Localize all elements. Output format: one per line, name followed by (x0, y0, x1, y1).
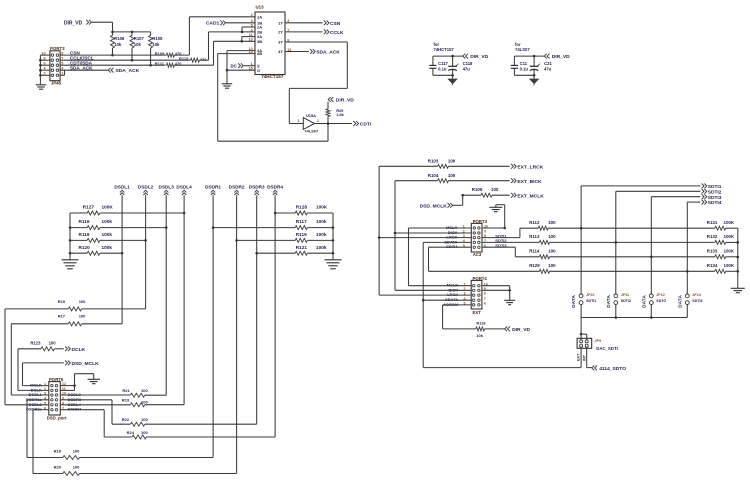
svg-text:2Y: 2Y (278, 30, 283, 35)
svg-text:EXT: EXT (577, 353, 581, 361)
svg-text:SDA_ACK: SDA_ACK (316, 50, 340, 56)
svg-text:U15A: U15A (306, 113, 316, 118)
svg-text:DIR_VD: DIR_VD (336, 97, 354, 103)
svg-text:3Y: 3Y (278, 40, 283, 45)
svg-text:0.1u: 0.1u (438, 67, 447, 72)
svg-text:100k: 100k (316, 232, 327, 237)
svg-text:R131: R131 (707, 220, 718, 225)
svg-text:DSD_MCLK: DSD_MCLK (72, 361, 100, 367)
svg-text:DIR_VD: DIR_VD (512, 327, 530, 333)
svg-text:1: 1 (251, 62, 253, 66)
svg-text:100k: 100k (102, 232, 113, 237)
svg-text:DSDR2: DSDR2 (229, 185, 245, 190)
svg-text:15: 15 (249, 67, 253, 71)
svg-text:1A: 1A (257, 14, 262, 19)
svg-text:SDTI1: SDTI1 (708, 184, 722, 190)
svg-text:100: 100 (448, 173, 456, 178)
svg-text:DATA: DATA (677, 295, 683, 308)
svg-text:R117: R117 (296, 219, 307, 224)
svg-text:100K: 100K (724, 263, 735, 268)
svg-text:R134: R134 (707, 263, 718, 268)
svg-text:100K: 100K (316, 205, 328, 210)
svg-text:R22: R22 (122, 417, 130, 422)
svg-text:C117: C117 (438, 61, 448, 66)
svg-text:R112: R112 (529, 220, 540, 225)
svg-text:100: 100 (548, 263, 556, 268)
svg-text:5: 5 (251, 23, 253, 27)
svg-text:11: 11 (249, 33, 253, 37)
svg-text:R106: R106 (114, 36, 125, 41)
svg-text:CAD1: CAD1 (206, 21, 220, 27)
svg-text:U13: U13 (256, 5, 265, 10)
svg-text:100k: 100k (102, 245, 113, 250)
svg-text:JP10: JP10 (586, 293, 594, 297)
svg-text:SDTI1: SDTI1 (586, 299, 596, 303)
svg-text:DSDR4: DSDR4 (267, 185, 283, 190)
svg-text:74LS07: 74LS07 (305, 129, 319, 134)
svg-text:9: 9 (484, 230, 486, 234)
svg-text:100: 100 (73, 465, 80, 470)
svg-text:100K: 100K (724, 249, 735, 254)
svg-text:DATA: DATA (571, 295, 577, 308)
svg-text:100: 100 (79, 314, 86, 319)
svg-text:4B: 4B (257, 51, 262, 56)
svg-text:DSDR1: DSDR1 (205, 185, 221, 190)
svg-text:100: 100 (548, 248, 556, 253)
svg-text:R24: R24 (127, 430, 135, 435)
svg-text:13: 13 (249, 50, 253, 54)
svg-text:R121: R121 (296, 245, 308, 250)
svg-text:R120: R120 (79, 245, 91, 250)
svg-text:100: 100 (141, 399, 148, 404)
svg-text:DSDL3: DSDL3 (159, 185, 175, 190)
svg-text:10k: 10k (134, 42, 142, 47)
svg-text:74HCT157: 74HCT157 (434, 47, 455, 52)
svg-text:C118: C118 (463, 61, 473, 66)
svg-text:R108: R108 (152, 36, 163, 41)
svg-text:10k: 10k (114, 42, 122, 47)
svg-text:74HCT157: 74HCT157 (261, 74, 284, 79)
svg-text:100k: 100k (102, 219, 113, 224)
svg-text:R19: R19 (58, 299, 66, 304)
svg-text:2: 2 (251, 13, 253, 17)
svg-text:47u: 47u (463, 67, 471, 72)
svg-text:470: 470 (200, 57, 207, 62)
svg-text:100: 100 (141, 417, 148, 422)
svg-text:DIR_VD: DIR_VD (470, 54, 488, 60)
svg-text:G: G (257, 68, 260, 73)
svg-text:100: 100 (448, 158, 456, 163)
svg-text:AC3: AC3 (473, 252, 482, 257)
svg-text:SDTI3: SDTI3 (708, 195, 722, 201)
svg-text:DSDR3: DSDR3 (249, 185, 265, 190)
svg-text:R111: R111 (155, 61, 165, 66)
svg-text:4Y: 4Y (278, 49, 283, 54)
svg-text:100k: 100k (316, 219, 327, 224)
svg-text:R128: R128 (296, 205, 308, 210)
svg-text:SDTI4: SDTI4 (692, 299, 702, 303)
svg-text:R20: R20 (54, 465, 62, 470)
svg-text:R103: R103 (428, 158, 439, 163)
svg-text:SDA_ACK: SDA_ACK (116, 68, 140, 74)
svg-text:R133: R133 (707, 249, 718, 254)
svg-text:DSD_MCLK: DSD_MCLK (420, 203, 448, 209)
svg-text:R132: R132 (707, 234, 718, 239)
svg-text:1: 1 (297, 119, 299, 123)
svg-text:CDTI: CDTI (360, 122, 372, 128)
svg-text:6: 6 (484, 302, 486, 306)
svg-text:6: 6 (251, 28, 253, 32)
svg-text:EXT: EXT (473, 310, 482, 315)
svg-text:R21: R21 (122, 388, 130, 393)
svg-text:R23: R23 (122, 398, 130, 403)
svg-text:C21: C21 (544, 61, 552, 66)
svg-text:1Y: 1Y (278, 20, 283, 25)
svg-text:R109: R109 (155, 51, 165, 56)
svg-text:100: 100 (79, 299, 86, 304)
svg-text:100K: 100K (724, 220, 735, 225)
svg-text:SDA_ACK: SDA_ACK (70, 66, 93, 71)
svg-text:JP9: JP9 (594, 339, 601, 343)
svg-text:R119: R119 (296, 232, 307, 237)
svg-text:0.1u: 0.1u (520, 67, 529, 72)
svg-text:R104: R104 (428, 173, 439, 178)
svg-text:100: 100 (73, 449, 80, 454)
svg-text:DATA: DATA (641, 295, 647, 308)
svg-text:100: 100 (548, 220, 556, 225)
svg-text:DIR_VD: DIR_VD (64, 21, 83, 27)
svg-text:R114: R114 (529, 248, 540, 253)
svg-text:DSDL4: DSDL4 (176, 185, 192, 190)
svg-text:100K: 100K (102, 205, 114, 210)
svg-text:JP12: JP12 (656, 293, 664, 297)
svg-text:100: 100 (49, 340, 57, 345)
svg-text:JP13: JP13 (692, 293, 700, 297)
svg-text:CSN: CSN (330, 21, 341, 27)
svg-text:4114_SDTO: 4114_SDTO (599, 366, 626, 372)
svg-text:SDTI2: SDTI2 (621, 299, 631, 303)
svg-text:100: 100 (548, 234, 556, 239)
svg-text:DSD_port: DSD_port (47, 416, 67, 421)
svg-text:10: 10 (249, 38, 253, 42)
svg-text:EXT_BICK: EXT_BICK (517, 179, 542, 185)
svg-text:DC: DC (231, 63, 238, 68)
svg-text:JP11: JP11 (621, 293, 629, 297)
svg-text:8: 8 (484, 292, 486, 296)
svg-text:100k: 100k (316, 245, 327, 250)
svg-text:R107: R107 (134, 36, 145, 41)
svg-text:DSDL2: DSDL2 (138, 185, 154, 190)
svg-text:DSDL1: DSDL1 (114, 185, 130, 190)
svg-text:R105: R105 (472, 187, 483, 192)
svg-text:10k: 10k (476, 333, 483, 338)
svg-text:INT: INT (582, 354, 586, 361)
svg-text:100: 100 (141, 430, 148, 435)
svg-text:R127: R127 (83, 205, 95, 210)
svg-text:74LS07: 74LS07 (515, 47, 530, 52)
svg-text:SDTI4: SDTI4 (708, 200, 722, 206)
svg-text:47u: 47u (544, 67, 552, 72)
svg-text:EXT_MCLK: EXT_MCLK (517, 193, 544, 199)
svg-text:JP48: JP48 (51, 81, 61, 86)
svg-text:R118: R118 (79, 232, 90, 237)
svg-text:100: 100 (141, 388, 148, 393)
svg-text:100K: 100K (724, 234, 735, 239)
svg-text:R17: R17 (58, 314, 66, 319)
svg-text:100: 100 (491, 187, 499, 192)
svg-text:DIR_VD: DIR_VD (552, 54, 570, 60)
svg-text:R129: R129 (529, 263, 540, 268)
svg-text:DATA: DATA (606, 295, 612, 308)
svg-text:SDTO: SDTO (656, 299, 666, 303)
svg-text:3B: 3B (257, 39, 262, 44)
svg-text:DCLK: DCLK (72, 347, 86, 353)
svg-text:R123: R123 (30, 340, 41, 345)
svg-text:R113: R113 (529, 234, 540, 239)
svg-text:7: 7 (484, 297, 486, 301)
svg-text:1.8k: 1.8k (336, 112, 344, 117)
svg-text:EXT_LRCK: EXT_LRCK (517, 165, 543, 171)
svg-text:R18: R18 (54, 449, 62, 454)
svg-text:10k: 10k (152, 42, 160, 47)
svg-text:SDTI2: SDTI2 (708, 189, 722, 195)
svg-text:2: 2 (317, 119, 319, 123)
svg-text:DAC_SDTI: DAC_SDTI (596, 346, 618, 351)
svg-text:C11: C11 (520, 61, 528, 66)
svg-text:R118: R118 (476, 321, 486, 326)
svg-text:R116: R116 (79, 219, 90, 224)
svg-text:CCLK: CCLK (330, 30, 344, 36)
